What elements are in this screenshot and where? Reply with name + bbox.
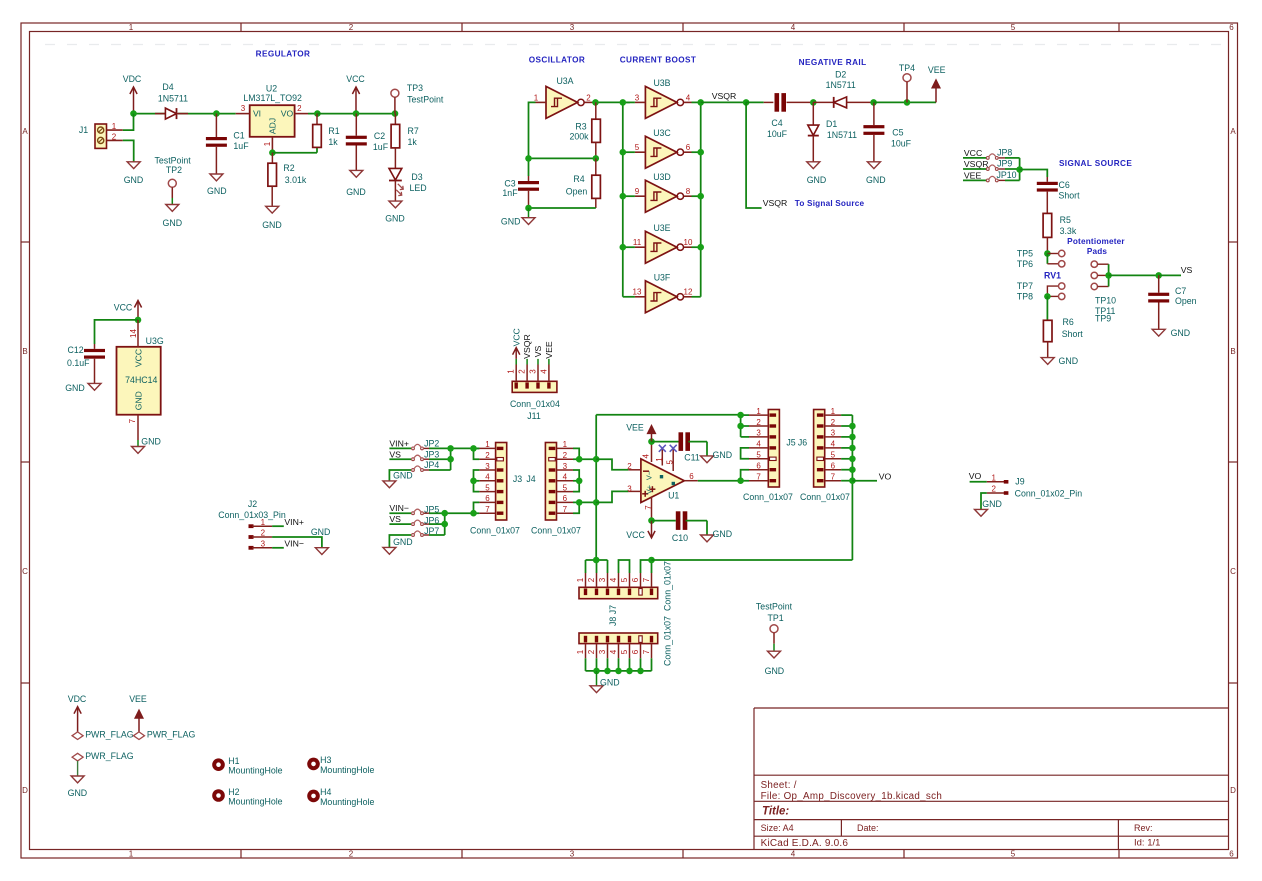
svg-text:1: 1 — [263, 141, 272, 146]
potentiometer pad middle — [1091, 272, 1097, 278]
resistor R7 — [394, 114, 396, 125]
ground under C5 — [867, 162, 880, 169]
svg-text:C4: C4 — [771, 118, 782, 128]
svg-text:VCC: VCC — [134, 349, 144, 367]
wire J5 pins 4-5 loop — [741, 448, 749, 459]
svg-text:Pads: Pads — [1087, 247, 1108, 256]
svg-text:VSQR: VSQR — [763, 198, 788, 208]
junction C5 node — [870, 99, 877, 106]
svg-text:2: 2 — [349, 850, 354, 859]
resistor R5 — [1043, 213, 1052, 237]
wire to C6 — [1020, 170, 1048, 178]
svg-text:A: A — [22, 127, 28, 136]
junction feedback right — [593, 155, 600, 162]
resistor R2 — [271, 153, 273, 164]
jumper JP9 — [986, 168, 989, 171]
junction JP5 bus — [441, 510, 448, 517]
ground under TP2 — [166, 205, 179, 212]
pin 4 of U1 — [651, 442, 653, 462]
svg-text:Rev:: Rev: — [1134, 823, 1153, 833]
svg-text:R6: R6 — [1063, 317, 1074, 327]
svg-text:5: 5 — [831, 451, 836, 460]
wire J4 pin2 to long vertical — [579, 458, 596, 460]
svg-text:3: 3 — [570, 850, 575, 859]
junction J7 pin7 — [648, 557, 655, 564]
svg-text:J4: J4 — [526, 474, 535, 484]
junction U3B input — [620, 99, 627, 106]
svg-text:1: 1 — [991, 473, 996, 482]
wire feedback row — [529, 157, 596, 159]
svg-text:3.01k: 3.01k — [285, 175, 307, 185]
wire U3C stubs — [623, 151, 635, 153]
wire VSQR down to signal source — [746, 102, 762, 208]
mounting hole H4 — [307, 790, 320, 803]
svg-text:7: 7 — [831, 473, 836, 482]
wire VCC node to C12 — [95, 320, 139, 344]
svg-text:VIN−: VIN− — [284, 539, 304, 549]
svg-text:JP10: JP10 — [997, 170, 1017, 180]
pin 14 of U3G — [137, 320, 139, 347]
wire C5 node to VEE — [874, 101, 936, 103]
connector J6 — [814, 410, 825, 488]
svg-text:C7: C7 — [1175, 286, 1186, 296]
svg-text:GND: GND — [134, 391, 144, 410]
svg-text:D3: D3 — [411, 172, 422, 182]
svg-text:4: 4 — [609, 649, 618, 654]
svg-text:To Signal Source: To Signal Source — [795, 199, 865, 208]
svg-text:JP2: JP2 — [424, 439, 439, 449]
svg-text:VCC: VCC — [114, 303, 133, 313]
svg-text:U3D: U3D — [653, 172, 671, 182]
ground at JP7 — [389, 535, 411, 547]
svg-text:3: 3 — [485, 462, 490, 471]
svg-text:GND: GND — [1171, 328, 1191, 338]
svg-text:U1: U1 — [668, 491, 679, 501]
wire VO to J9 pin1 — [970, 481, 987, 483]
svg-text:1: 1 — [576, 649, 585, 654]
wire to VS label — [1159, 274, 1181, 276]
svg-text:GND: GND — [311, 527, 331, 537]
junction TP5 node — [1044, 250, 1051, 257]
connector J7 — [579, 587, 658, 598]
wire input bus of current boost — [622, 102, 624, 296]
svg-text:U3C: U3C — [653, 128, 671, 138]
svg-text:3: 3 — [627, 484, 632, 493]
op-amp U1 — [641, 459, 684, 503]
wire jumper bus — [1019, 158, 1021, 181]
wire J6 bus vertical — [851, 415, 853, 560]
svg-text:Short: Short — [1062, 329, 1084, 339]
svg-text:GND: GND — [807, 175, 827, 185]
svg-text:U3F: U3F — [654, 273, 671, 283]
svg-text:3: 3 — [598, 577, 607, 582]
svg-text:H3: H3 — [320, 755, 331, 765]
svg-text:JP3: JP3 — [424, 449, 439, 459]
svg-text:1N5711: 1N5711 — [826, 80, 856, 90]
svg-text:V+: V+ — [645, 485, 654, 494]
svg-text:4: 4 — [539, 369, 548, 374]
svg-text:C5: C5 — [892, 128, 903, 138]
svg-text:1: 1 — [129, 850, 134, 859]
wire output bus of current boost — [700, 102, 702, 296]
svg-text:GND: GND — [982, 499, 1002, 509]
svg-text:PWR_FLAG: PWR_FLAG — [85, 751, 134, 761]
svg-text:1: 1 — [129, 23, 134, 32]
svg-text:V−: V− — [645, 471, 654, 480]
svg-text:2: 2 — [297, 104, 302, 113]
junction JP3 bus — [447, 456, 454, 463]
svg-text:TP7: TP7 — [1017, 281, 1033, 291]
svg-text:RV1: RV1 — [1044, 271, 1061, 281]
svg-text:2: 2 — [518, 369, 527, 374]
svg-text:Date:: Date: — [857, 823, 879, 833]
svg-text:1uF: 1uF — [373, 142, 389, 152]
ground under J1 — [127, 162, 140, 169]
resistor R3 — [595, 102, 597, 119]
svg-text:1uF: 1uF — [233, 141, 249, 151]
junction long vertical pin6 row — [593, 499, 600, 506]
svg-text:5: 5 — [1011, 23, 1016, 32]
wire J1 pin1 to VDC node — [123, 114, 134, 131]
wire to U1 pin3 — [596, 491, 628, 502]
wire VSQR node to C4 — [746, 101, 764, 103]
svg-text:4: 4 — [686, 93, 691, 102]
junction U1 VEE node — [648, 438, 655, 445]
svg-text:1k: 1k — [408, 137, 418, 147]
svg-text:2: 2 — [112, 132, 117, 141]
junction long vertical pin2 row — [593, 456, 600, 463]
svg-text:MountingHole: MountingHole — [320, 765, 374, 775]
svg-text:VEE: VEE — [928, 65, 946, 75]
svg-text:OSCILLATOR: OSCILLATOR — [529, 55, 585, 64]
wire ADJ node to R1 bottom — [272, 152, 317, 154]
wire into JP9 — [963, 168, 986, 170]
wire J2 pin1 to VIN+ — [272, 525, 284, 527]
svg-text:GND: GND — [207, 186, 227, 196]
svg-text:Conn_01x02_Pin: Conn_01x02_Pin — [1015, 488, 1083, 498]
svg-text:1: 1 — [563, 440, 568, 449]
wire JP7 to bus — [429, 534, 445, 536]
svg-text:3: 3 — [241, 104, 246, 113]
svg-text:3: 3 — [570, 23, 575, 32]
wire U3A input loop — [529, 102, 536, 176]
jumper JP5 — [389, 512, 411, 514]
svg-text:1N5711: 1N5711 — [158, 94, 188, 104]
junction J4 pin4 — [576, 478, 583, 485]
svg-text:13: 13 — [633, 288, 642, 297]
svg-text:0.1uF: 0.1uF — [67, 358, 90, 368]
junction U3E output — [697, 244, 704, 251]
junction ADJ node — [269, 149, 276, 156]
svg-text:C3: C3 — [504, 179, 515, 189]
junction J6 pin7 — [849, 477, 856, 484]
wire U2 VO to R1 node — [308, 113, 317, 115]
svg-text:3.3k: 3.3k — [1060, 226, 1077, 236]
resistor R1 — [316, 114, 318, 125]
svg-text:1: 1 — [261, 518, 266, 527]
svg-text:TP6: TP6 — [1017, 259, 1033, 269]
svg-text:GND: GND — [600, 677, 620, 687]
svg-text:GND: GND — [124, 175, 144, 185]
svg-text:VEE: VEE — [626, 423, 644, 433]
svg-text:MountingHole: MountingHole — [228, 766, 282, 776]
svg-text:1N5711: 1N5711 — [827, 130, 857, 140]
svg-text:GND: GND — [346, 187, 366, 197]
wire top J5 feed — [596, 414, 740, 416]
svg-text:2: 2 — [485, 451, 490, 460]
wire J4 pins 3-5 loop — [573, 470, 579, 492]
connector J9 — [987, 481, 1004, 483]
svg-text:TP9: TP9 — [1095, 314, 1111, 324]
svg-text:5: 5 — [756, 451, 761, 460]
junction C1 node — [213, 110, 220, 117]
svg-text:5: 5 — [1011, 850, 1016, 859]
svg-text:2: 2 — [587, 577, 596, 582]
svg-text:J11: J11 — [527, 411, 541, 421]
junction J8 bus — [626, 668, 633, 675]
junction J6 pin3 — [849, 434, 856, 441]
svg-text:GND: GND — [65, 383, 85, 393]
svg-text:1: 1 — [831, 407, 836, 416]
svg-text:11: 11 — [633, 238, 642, 247]
connector J11 — [512, 381, 557, 392]
wire J6 pin1 to bus — [841, 414, 852, 416]
svg-text:4: 4 — [642, 454, 651, 459]
junction J8 bus — [615, 668, 622, 675]
junction C3 bottom — [525, 205, 532, 212]
wire J3 pins 6-7 loop — [474, 502, 480, 513]
wire J6 pin5 to bus — [841, 458, 852, 460]
svg-text:7: 7 — [642, 577, 651, 582]
svg-text:Open: Open — [566, 187, 588, 197]
wire J7 pins 6-7 — [641, 560, 652, 573]
svg-text:H2: H2 — [228, 787, 239, 797]
wire U3A output to U3B — [592, 101, 630, 103]
wire JP2 to J3 pin1 — [429, 447, 479, 449]
ground under J8 — [596, 671, 598, 686]
junction jumper bus — [1016, 166, 1023, 173]
svg-text:VS: VS — [389, 514, 401, 524]
wire J6 pin6 to bus — [841, 469, 852, 471]
svg-text:J6: J6 — [798, 438, 807, 448]
svg-text:TP1: TP1 — [768, 613, 784, 623]
ground under C2 — [350, 170, 363, 177]
svg-text:U3B: U3B — [653, 78, 670, 88]
svg-text:6: 6 — [1229, 23, 1234, 32]
svg-text:JP4: JP4 — [424, 460, 439, 470]
svg-text:GND: GND — [765, 666, 785, 676]
wire J5 pins 1-3 bus — [741, 414, 749, 416]
svg-text:7: 7 — [128, 418, 137, 423]
svg-text:1: 1 — [485, 440, 490, 449]
svg-text:Short: Short — [1059, 191, 1081, 201]
svg-text:TP5: TP5 — [1017, 248, 1033, 258]
svg-text:7: 7 — [563, 505, 568, 514]
pin 6 of U1 — [684, 480, 698, 482]
svg-text:4: 4 — [756, 440, 761, 449]
svg-text:PWR_FLAG: PWR_FLAG — [85, 729, 134, 739]
svg-text:VO: VO — [281, 109, 294, 119]
ground at J9 — [975, 509, 988, 516]
svg-text:GND: GND — [141, 437, 161, 447]
mounting hole H3 — [307, 758, 320, 771]
mounting hole H1 — [212, 758, 225, 771]
svg-text:D4: D4 — [162, 82, 173, 92]
capacitor C4 — [764, 101, 774, 103]
svg-text:J2: J2 — [248, 499, 257, 509]
svg-text:TP2: TP2 — [166, 165, 182, 175]
svg-text:A: A — [1230, 127, 1236, 136]
svg-text:5: 5 — [635, 143, 640, 152]
svg-text:4: 4 — [563, 473, 568, 482]
svg-text:74HC14: 74HC14 — [125, 375, 157, 385]
svg-text:SIGNAL SOURCE: SIGNAL SOURCE — [1059, 159, 1132, 168]
ground at C10 — [701, 535, 714, 542]
wire TP5 to TP6 — [1046, 254, 1048, 264]
ground under TP1 — [768, 651, 781, 658]
junction J6 pin6 — [849, 466, 856, 473]
svg-text:C1: C1 — [233, 131, 244, 141]
wire VSQR output — [701, 101, 746, 103]
power flag GND — [72, 753, 83, 761]
svg-text:1k: 1k — [328, 137, 338, 147]
svg-text:Conn_01x07: Conn_01x07 — [743, 492, 793, 502]
junction J5 pin2 — [737, 423, 744, 430]
svg-text:VEE: VEE — [544, 341, 554, 359]
wire J2 pin2 to ground — [272, 537, 322, 548]
svg-text:GND: GND — [262, 220, 282, 230]
junction J5 pin7 — [737, 477, 744, 484]
svg-text:5: 5 — [563, 483, 568, 492]
wire J6 pin7 to bus — [841, 480, 852, 482]
svg-text:1: 1 — [507, 369, 516, 374]
svg-text:5: 5 — [620, 577, 629, 582]
junction JP6 bus — [441, 521, 448, 528]
svg-text:7: 7 — [485, 505, 490, 514]
svg-text:4: 4 — [791, 850, 796, 859]
connector J3 — [496, 443, 507, 521]
wire U3B stubs — [623, 101, 635, 103]
svg-text:R3: R3 — [575, 121, 586, 131]
svg-text:4: 4 — [831, 440, 836, 449]
wire J2 pin3 to VIN- — [272, 547, 284, 549]
junction U3D output — [697, 193, 704, 200]
capacitor C5 — [873, 102, 875, 125]
svg-text:GND: GND — [1059, 356, 1079, 366]
svg-text:MountingHole: MountingHole — [320, 797, 374, 807]
junction J6 pin4 — [849, 445, 856, 452]
svg-text:TestPoint: TestPoint — [155, 156, 192, 166]
ground under D3 — [389, 201, 402, 208]
svg-text:2: 2 — [627, 462, 632, 471]
svg-text:C12: C12 — [68, 345, 84, 355]
svg-text:TP8: TP8 — [1017, 292, 1033, 302]
svg-text:6: 6 — [631, 577, 640, 582]
svg-text:J9: J9 — [1015, 476, 1024, 486]
svg-text:GND: GND — [393, 471, 413, 481]
ground under R2 — [266, 206, 279, 213]
svg-text:VEE: VEE — [129, 694, 147, 704]
LED D3 — [389, 168, 402, 180]
junction feedback left — [525, 155, 532, 162]
svg-text:2: 2 — [756, 418, 761, 427]
svg-text:VSQR: VSQR — [712, 91, 737, 101]
svg-text:VO: VO — [879, 471, 892, 481]
svg-text:1: 1 — [112, 122, 117, 131]
junction J8 bus — [637, 668, 644, 675]
svg-text:D2: D2 — [835, 70, 846, 80]
svg-text:TP4: TP4 — [899, 63, 915, 73]
connector J4 — [545, 443, 556, 521]
jumper JP2 — [389, 447, 411, 449]
power VCC at J11 pin1 — [515, 348, 517, 359]
wire JP9 to bus — [1005, 168, 1020, 170]
svg-text:VS: VS — [533, 346, 543, 358]
svg-text:12: 12 — [684, 288, 693, 297]
pin 7 of U3G — [137, 415, 139, 440]
svg-text:File: Op_Amp_Discovery_1b.kica: File: Op_Amp_Discovery_1b.kicad_sch — [761, 791, 942, 802]
wire J9 pin2 to ground — [981, 493, 987, 509]
svg-text:R1: R1 — [328, 126, 339, 136]
svg-text:CURRENT BOOST: CURRENT BOOST — [620, 55, 697, 64]
svg-text:R5: R5 — [1060, 215, 1071, 225]
svg-text:2: 2 — [563, 451, 568, 460]
ground under R6 — [1041, 358, 1054, 365]
wire VDC node to D4 and C1 node to U2 VI — [134, 113, 166, 115]
svg-text:3: 3 — [831, 429, 836, 438]
svg-text:R7: R7 — [408, 126, 419, 136]
jumper JP4 — [412, 469, 415, 472]
capacitor C11 — [652, 441, 679, 443]
junction J3 pin4 — [470, 478, 477, 485]
wire JP3 to bus — [429, 458, 451, 460]
junction J5 pin1 — [737, 412, 744, 419]
wire to U1 pin2 — [596, 459, 628, 470]
svg-text:REGULATOR: REGULATOR — [256, 49, 311, 58]
ground under D1 — [807, 162, 820, 169]
junction J4 pin6 — [576, 499, 583, 506]
svg-text:VCC: VCC — [626, 530, 645, 540]
svg-text:R2: R2 — [283, 163, 294, 173]
capacitor C12 — [94, 344, 96, 349]
junction J4 pin2 — [576, 456, 583, 463]
svg-text:Conn_01x07: Conn_01x07 — [800, 492, 850, 502]
svg-text:3: 3 — [756, 429, 761, 438]
svg-text:1nF: 1nF — [502, 188, 518, 198]
svg-text:GND: GND — [866, 175, 886, 185]
svg-text:TP3: TP3 — [407, 83, 423, 93]
wire J1 pin2 to ground — [123, 140, 134, 161]
junction TP4 node — [904, 99, 911, 106]
svg-text:Conn_01x07: Conn_01x07 — [663, 616, 673, 666]
svg-text:VS: VS — [389, 449, 401, 459]
capacitor C3 — [528, 176, 530, 181]
svg-text:J5: J5 — [786, 438, 795, 448]
wire JP4 to bus — [429, 469, 451, 471]
wire J5 pins 6-7 loop — [741, 470, 749, 481]
junction J8 bus — [604, 668, 611, 675]
connector J1 — [95, 124, 107, 148]
svg-text:2: 2 — [349, 23, 354, 32]
potentiometer pad top — [1091, 261, 1097, 267]
junction VCC node — [353, 110, 360, 117]
svg-text:7: 7 — [756, 473, 761, 482]
junction J6 pin2 — [849, 423, 856, 430]
resistor R6 — [1043, 320, 1052, 341]
wire JP10 to bus — [1005, 179, 1020, 181]
resistor R4 — [595, 158, 597, 175]
svg-text:H1: H1 — [228, 756, 239, 766]
